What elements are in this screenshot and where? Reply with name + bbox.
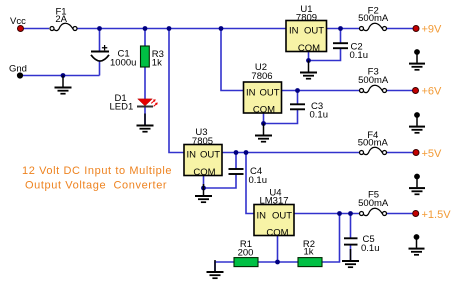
svg-text:OUT: OUT — [200, 150, 220, 161]
svg-text:7809: 7809 — [296, 12, 317, 23]
wire R3 to LED — [144, 67, 146, 99]
svg-text:0.1u: 0.1u — [350, 50, 369, 61]
svg-text:COM: COM — [298, 43, 320, 54]
wire U1 OUT to F2 — [327, 28, 361, 30]
svg-text:+5V: +5V — [422, 148, 443, 160]
regulator U2 7806 — [244, 82, 282, 116]
capacitor C1 — [91, 45, 109, 61]
fuse F3 — [360, 85, 387, 92]
ground terminal below +9V — [409, 49, 425, 70]
svg-text:COM: COM — [253, 105, 275, 116]
wire C1 top stem — [99, 29, 101, 52]
capacitor C3 — [290, 104, 305, 109]
wire C3 bottom to U2 COM — [264, 110, 298, 124]
svg-text:IN: IN — [187, 150, 197, 161]
svg-text:+6V: +6V — [422, 86, 443, 98]
ground below Gnd rail — [55, 76, 72, 94]
svg-text:500mA: 500mA — [358, 13, 389, 24]
svg-text:+1.5V: +1.5V — [422, 209, 452, 221]
wire C2 bottom to U1 COM — [309, 48, 341, 60]
ground below C5 — [342, 249, 359, 267]
wire U4 COM stem — [277, 236, 279, 263]
svg-text:IN: IN — [257, 210, 267, 221]
wire C4 bottom to U3 COM — [204, 174, 237, 189]
wire LED cathode to ground — [144, 107, 146, 126]
wire C3 stem — [297, 91, 299, 105]
wire C1 bottom stem — [99, 61, 101, 76]
resistor R1 — [234, 258, 258, 267]
node R1 R2 COM — [275, 260, 280, 265]
svg-text:OUT: OUT — [259, 87, 279, 98]
wire U1 COM stem — [308, 52, 310, 62]
svg-text:0.1u: 0.1u — [310, 110, 329, 121]
ground terminal below +1.5V — [409, 234, 425, 255]
wire U2 OUT to F3 — [281, 90, 360, 92]
svg-text:+9V: +9V — [422, 24, 443, 36]
wire C4 stem — [235, 153, 237, 170]
node C1 top — [97, 26, 102, 31]
node C2 top — [338, 26, 343, 31]
node U2 COM — [261, 121, 266, 126]
terminal +1.5V — [413, 211, 419, 217]
wire U3 COM stem — [203, 176, 205, 189]
node C4 top — [234, 150, 239, 155]
ground U2 COM — [255, 124, 272, 142]
svg-text:0.1u: 0.1u — [249, 175, 268, 186]
terminal Gnd — [17, 72, 23, 78]
terminal +6V — [413, 88, 419, 94]
svg-text:LED1: LED1 — [110, 102, 134, 113]
svg-text:1k: 1k — [152, 58, 162, 69]
wire top rail to U2 IN — [221, 29, 244, 91]
svg-text:200: 200 — [238, 247, 254, 258]
wire Gnd bottom rail — [20, 75, 100, 77]
wire C2 stem — [340, 29, 342, 44]
svg-text:OUT: OUT — [304, 26, 324, 37]
fuse F5 — [360, 208, 387, 215]
node R2 rail — [337, 211, 342, 216]
wire R2 to +1.5V rail — [322, 214, 340, 263]
svg-text:IN: IN — [246, 87, 256, 98]
svg-text:500mA: 500mA — [358, 75, 389, 86]
wire +5V rail to U4 IN — [246, 153, 254, 214]
ground left of R1 — [207, 260, 224, 278]
node U3 feed — [167, 26, 172, 31]
wire C5 bottom to ground — [350, 245, 352, 261]
wire U4 OUT to F5 — [294, 213, 360, 215]
svg-text:Gnd: Gnd — [9, 64, 27, 75]
wire F3 to +6V terminal — [386, 90, 414, 92]
capacitor C5 — [344, 238, 358, 244]
wire Vcc to F1 — [21, 28, 50, 30]
ground terminal below +6V — [409, 112, 425, 133]
wire F2 to +9V terminal — [386, 28, 414, 30]
node U1 COM — [306, 58, 311, 63]
diode D1 LED — [137, 99, 158, 107]
resistor R2 — [298, 258, 322, 267]
node U3 COM — [201, 186, 206, 191]
ground terminal below +5V — [409, 174, 425, 195]
svg-text:500mA: 500mA — [358, 138, 389, 149]
node U4 feed — [244, 150, 249, 155]
fuse F2 — [360, 23, 387, 30]
ground U1 COM — [300, 61, 317, 79]
node R3 top — [143, 26, 148, 31]
wire C5 stem — [350, 214, 352, 239]
svg-text:COM: COM — [266, 227, 288, 238]
svg-text:0.1u: 0.1u — [361, 243, 380, 254]
wire top rail to U3 IN — [169, 29, 184, 153]
resistor R3 — [141, 46, 150, 67]
capacitor C4 — [229, 169, 244, 174]
node Gnd rail — [61, 73, 66, 78]
wire U3 OUT to F4 — [222, 152, 360, 154]
svg-text:7805: 7805 — [192, 136, 213, 147]
regulator U1 7809 — [286, 21, 327, 55]
svg-text:OUT: OUT — [272, 210, 292, 221]
svg-text:7806: 7806 — [251, 71, 272, 82]
wire F4 to +5V terminal — [386, 152, 414, 154]
terminal +9V — [413, 26, 419, 32]
wire F1 to U1 IN — [77, 28, 286, 30]
node C3 top — [295, 88, 300, 93]
svg-text:COM: COM — [193, 167, 215, 178]
node U2 feed — [219, 26, 224, 31]
terminal +5V — [413, 150, 419, 156]
svg-text:IN: IN — [289, 26, 299, 37]
capacitor C2 — [333, 43, 348, 48]
wire R1 to R2 — [258, 261, 298, 263]
ground U3 COM — [195, 184, 212, 202]
svg-text:Vcc: Vcc — [10, 16, 26, 27]
wire U2 COM stem — [263, 113, 265, 124]
fuse F4 — [360, 147, 387, 154]
svg-text:1k: 1k — [303, 247, 313, 258]
terminal Vcc — [18, 26, 24, 32]
svg-text:LM317: LM317 — [259, 195, 288, 206]
regulator U3 7805 — [184, 145, 222, 179]
node C5 top — [348, 211, 353, 216]
svg-text:1000u: 1000u — [110, 58, 136, 69]
svg-text:Output Voltage Converter: Output Voltage Converter — [25, 180, 167, 192]
ground below LED — [137, 114, 154, 132]
svg-text:2A: 2A — [55, 14, 67, 25]
fuse F1 — [50, 23, 77, 30]
regulator U4 LM317 — [254, 205, 294, 239]
svg-text:12 Volt DC Input to Multiple: 12 Volt DC Input to Multiple — [22, 165, 172, 177]
wire F5 to +1.5V terminal — [386, 213, 414, 215]
wire R3 top — [144, 29, 146, 47]
wire ground to R1 — [215, 262, 234, 272]
svg-text:500mA: 500mA — [358, 198, 389, 209]
